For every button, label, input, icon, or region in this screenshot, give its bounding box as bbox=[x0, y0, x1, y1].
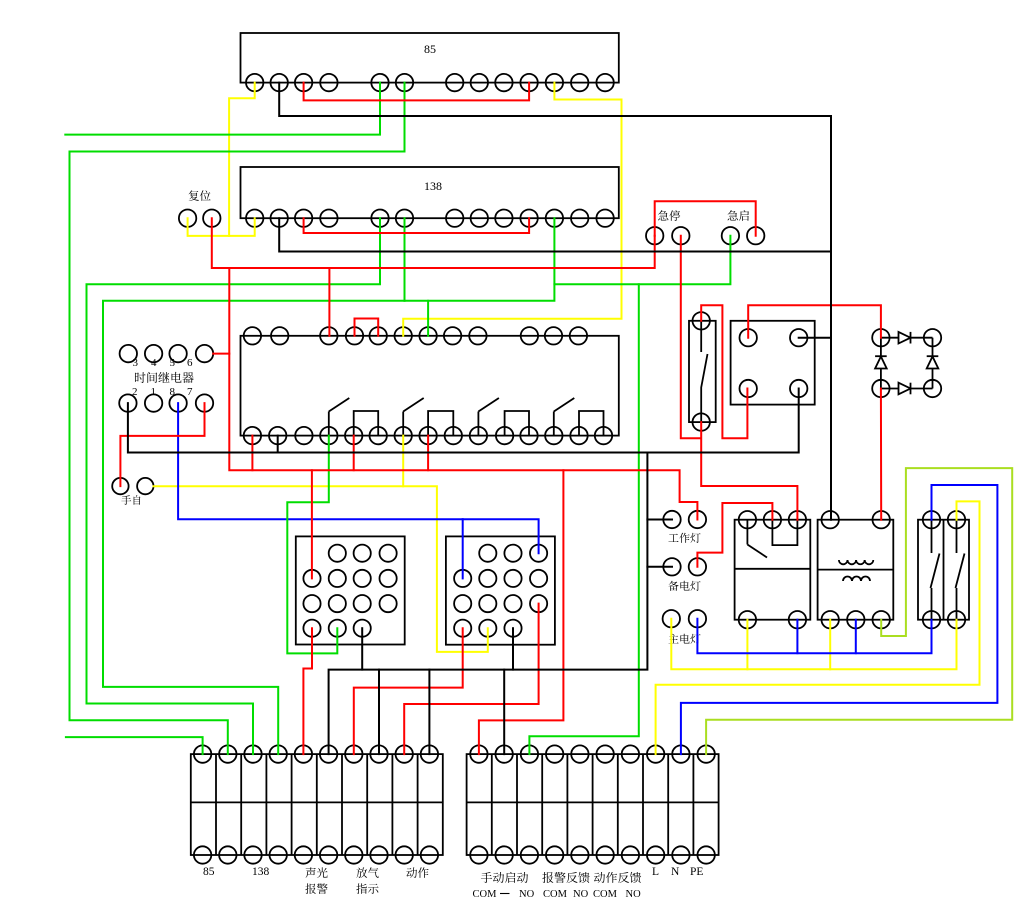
wire black standby lamp stub bbox=[647, 566, 672, 568]
wire black lamp feed drop bbox=[329, 453, 648, 755]
wire red 138 bracket T3-T10 bbox=[304, 218, 529, 233]
standby lamp terminals 备电灯 bbox=[663, 558, 680, 575]
wire red controller bracket T4-T5 bbox=[355, 319, 379, 336]
wire red isolator bottom to KM1 T3 bbox=[701, 422, 797, 520]
wire red time relay pin6 stub bbox=[213, 353, 229, 355]
wire green 138-T6 riser bbox=[404, 218, 406, 301]
relay contact K1 blade bbox=[328, 412, 330, 436]
svg-text:PE: PE bbox=[690, 866, 703, 878]
strip X1 bottom terminals bbox=[194, 846, 211, 863]
wire green 138-T5 to strip X1-3 bbox=[87, 218, 381, 754]
emergency stop terminals bbox=[646, 227, 663, 244]
wire red bridge to transformer bbox=[880, 389, 882, 520]
wire blue KM1 bottom T2 riser bbox=[796, 620, 798, 654]
work lamp terminals 工作灯 bbox=[663, 511, 680, 528]
svg-text:COM: COM bbox=[473, 889, 498, 900]
wire green controller bottom T4 to matrix1 bbox=[287, 436, 337, 654]
svg-text:NO: NO bbox=[573, 889, 589, 900]
wire yellow controller bottom T7 stub bbox=[402, 436, 404, 487]
svg-text:4: 4 bbox=[151, 357, 157, 369]
label 手动启动 bbox=[481, 872, 528, 883]
wire red drop to time relay and bus bbox=[229, 268, 697, 520]
relay box K5 bbox=[731, 321, 815, 405]
main lamp terminals 主电灯 bbox=[663, 610, 680, 627]
wire blue N line bbox=[681, 485, 998, 754]
transformer box bbox=[818, 520, 894, 620]
wire red reset T2 to stop T1 bbox=[212, 218, 655, 268]
svg-text:3: 3 bbox=[133, 357, 139, 369]
svg-text:85: 85 bbox=[203, 866, 215, 878]
terminal strip X1 cell dividers bbox=[215, 754, 217, 855]
wire yellow manual-auto T2 horizontal bbox=[154, 486, 488, 652]
wire red bus drop to matrix1 r2c1 bbox=[311, 470, 313, 578]
switch block top terminals bbox=[923, 511, 940, 528]
label 动作 bbox=[406, 867, 428, 878]
controller bottom terminal row bbox=[244, 427, 261, 444]
wire blue main lamp bus bbox=[697, 619, 931, 654]
controller top terminal row bbox=[244, 327, 261, 344]
svg-text:N: N bbox=[671, 866, 680, 878]
switch S1 blade bbox=[931, 520, 933, 553]
isolator top terminal bbox=[693, 312, 710, 329]
wire yellow reset to 138-T1 bbox=[188, 218, 255, 236]
label 急停 bbox=[658, 210, 680, 221]
wire blue transformer bottom T2 riser bbox=[855, 620, 857, 654]
terminal row of box 138 bbox=[246, 210, 263, 227]
wire black matrix2 r4c3 riser bbox=[512, 628, 514, 669]
button matrix 2 box bbox=[446, 536, 555, 644]
wire green 85-T6 to strip X1-2 bbox=[70, 83, 405, 755]
wire red 85 bracket T3-T10 bbox=[304, 83, 529, 101]
wire yellow transformer bottom T1 riser bbox=[829, 620, 831, 670]
svg-text:7: 7 bbox=[187, 386, 193, 398]
relay contact K4 blade bbox=[553, 412, 555, 436]
emergency start terminals bbox=[722, 227, 739, 244]
strip X2 top terminals bbox=[470, 745, 487, 762]
switch block bottom terminals bbox=[923, 611, 940, 628]
wire yellow 85-T1 to reset bus bbox=[229, 83, 255, 236]
wire green strip X1-1 feed bbox=[66, 737, 203, 754]
label 声光报警 bbox=[305, 867, 327, 878]
bridge bottom diode D2 bbox=[881, 388, 899, 390]
svg-text:COM: COM bbox=[543, 889, 568, 900]
isolator blade bbox=[700, 321, 702, 352]
wire black 85-T2 to transformer bbox=[279, 83, 831, 520]
wire red drop to controller T3 bbox=[328, 268, 330, 336]
svg-text:85: 85 bbox=[424, 42, 436, 56]
relay contact K1 bracket bbox=[354, 411, 379, 436]
bridge left diode D3 bbox=[880, 338, 882, 356]
wire red drop to strip X2-1 bbox=[479, 470, 564, 754]
wire blue matrix2 r2c1 drop bbox=[462, 519, 464, 578]
wire red matrix2 r3c4 to strip X1-9 bbox=[404, 604, 538, 755]
controller main board box bbox=[241, 336, 619, 436]
label 动作反馈 bbox=[594, 872, 641, 883]
button matrix 1 box bbox=[296, 536, 405, 644]
contactor KM1 bottom terminals bbox=[739, 611, 756, 628]
svg-text:NO: NO bbox=[626, 889, 642, 900]
wire green controller top T7 drop bbox=[427, 301, 429, 336]
isolator switch box bbox=[689, 321, 716, 422]
relay contact K4 bracket bbox=[579, 411, 604, 436]
wire black strip X1-8 drop bbox=[378, 670, 380, 755]
relay contact K2 blade bbox=[402, 412, 404, 436]
wire black strip X1-10 drop bbox=[428, 670, 430, 755]
terminal strip X1 body bbox=[191, 754, 443, 855]
svg-text:NO: NO bbox=[519, 889, 535, 900]
wire yellow L line bbox=[656, 501, 980, 754]
transformer top terminals bbox=[822, 511, 839, 528]
wire yellow main lamp bus bbox=[671, 619, 956, 670]
label 主电灯 bbox=[668, 634, 700, 644]
relay contact K2 bracket bbox=[428, 411, 453, 436]
isolator bottom terminal bbox=[693, 413, 710, 430]
wire red matrix2 r4c1 to strip X1-7 bbox=[354, 628, 463, 754]
relay contact K3 blade bbox=[477, 412, 479, 436]
label 报警反馈 bbox=[542, 872, 589, 883]
label 工作灯 bbox=[668, 533, 700, 543]
button matrix 2 buttons bbox=[479, 545, 496, 562]
relay unit box 85 bbox=[241, 33, 619, 83]
terminal row of box 85 bbox=[246, 74, 263, 91]
bridge top diode D1 bbox=[881, 337, 899, 339]
wire red K5 to bridge bbox=[748, 305, 881, 338]
wire black 138-T2 join bbox=[279, 218, 831, 251]
bridge right diode D4 bbox=[932, 338, 934, 356]
strip X2 bottom terminals bbox=[470, 846, 487, 863]
time relay bottom pins 2 1 8 7 bbox=[119, 394, 136, 411]
label 备电灯 bbox=[668, 581, 700, 591]
relay K5 terminals bbox=[740, 329, 757, 346]
wire yellow KM1 bottom T1 riser bbox=[746, 620, 748, 670]
svg-text:COM: COM bbox=[593, 889, 618, 900]
svg-text:1: 1 bbox=[151, 386, 157, 398]
label 急启 bbox=[728, 210, 749, 221]
transformer secondary winding bbox=[843, 577, 852, 582]
label 手自 bbox=[121, 495, 140, 505]
svg-text:138: 138 bbox=[252, 866, 270, 878]
wire yellow 85-T11 to controller T6 bbox=[403, 83, 621, 336]
bridge rectifier terminals bbox=[872, 329, 889, 346]
svg-text:L: L bbox=[652, 866, 659, 878]
button matrix 1 buttons bbox=[329, 545, 346, 562]
svg-text:6: 6 bbox=[187, 357, 193, 369]
wire green 85-T5 left bbox=[65, 83, 380, 135]
wire red stop T2 to isolator bbox=[681, 236, 701, 439]
wire blue time relay pin8 to matrix2 bbox=[178, 403, 538, 553]
wire green drop to strip X2-3 bbox=[529, 284, 638, 754]
contactor KM1 box bbox=[735, 520, 811, 620]
strip X1 top terminals bbox=[194, 745, 211, 762]
wire green 138-T11 net bbox=[103, 218, 554, 754]
wire black strip X2-2 drop bbox=[503, 670, 505, 755]
transformer bottom terminals bbox=[822, 611, 839, 628]
transformer primary winding bbox=[839, 560, 848, 564]
wire green start button net bbox=[554, 236, 730, 285]
time relay top pins 3 4 5 6 bbox=[120, 345, 137, 362]
wire black work lamp stub bbox=[647, 519, 672, 521]
wire red controller bottom stubs bbox=[251, 436, 253, 471]
contactor KM1 blade bbox=[746, 520, 748, 545]
wire red stop-start bracket bbox=[655, 201, 756, 236]
wire red time relay pin7 to manual-auto bbox=[120, 403, 204, 486]
wire black matrix1 r4c3 riser bbox=[361, 628, 363, 669]
wire red matrix1 r4c1 to strip X1-5 bbox=[303, 628, 312, 754]
label 复位 bbox=[189, 190, 211, 201]
terminal strip X2 body bbox=[467, 754, 719, 855]
label 时间继电器 bbox=[135, 372, 194, 383]
label 放气指示 bbox=[356, 867, 378, 878]
wire black main bus bbox=[128, 389, 799, 453]
wire red standby lamp to KM1 T2 bbox=[697, 503, 772, 567]
wire green-yellow PE line bbox=[706, 468, 1012, 754]
terminal strip X2 cell dividers bbox=[491, 754, 493, 855]
svg-text:5: 5 bbox=[170, 357, 176, 369]
wire red isolator top loop to K5 bbox=[701, 305, 747, 438]
wire black K5-T2 stub bbox=[799, 337, 831, 339]
reset terminals 复位 bbox=[179, 210, 196, 227]
svg-text:138: 138 bbox=[424, 179, 442, 193]
manual-auto terminals 手自 bbox=[112, 478, 128, 494]
wire black controller bottom T2 stub bbox=[277, 436, 279, 453]
switch block box bbox=[918, 520, 969, 620]
contactor KM1 top terminals bbox=[739, 511, 756, 528]
contactor KM1 bracket bbox=[772, 520, 797, 545]
switch S2 blade bbox=[956, 520, 958, 553]
relay contact K3 bracket bbox=[505, 411, 529, 436]
relay unit box 138 bbox=[241, 167, 619, 218]
